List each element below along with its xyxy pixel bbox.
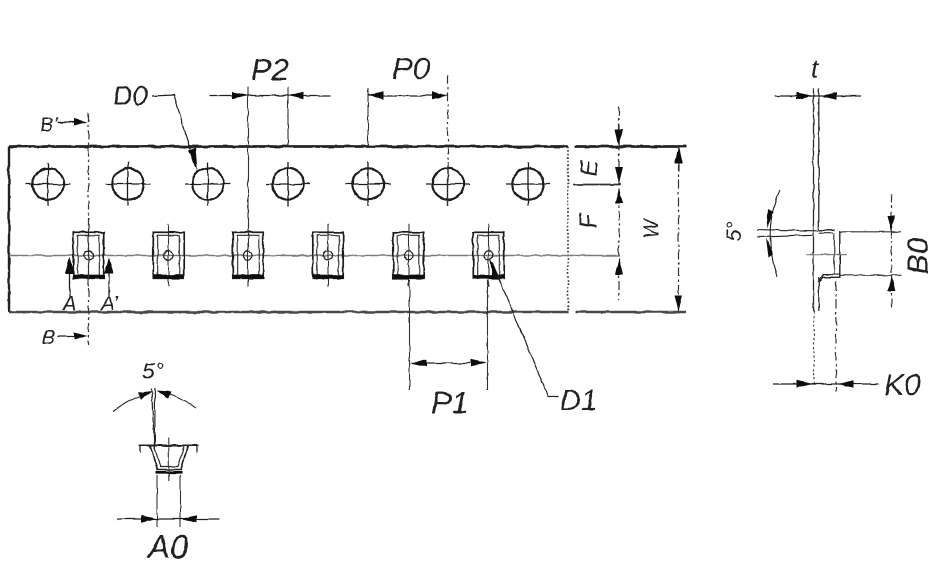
label D0 with leader bbox=[113, 81, 198, 172]
sprocket hole 2 bbox=[106, 162, 151, 206]
detail pocket cup outer wall bbox=[150, 446, 188, 470]
svg-text:A’: A’ bbox=[100, 293, 119, 315]
side view pocket profile bbox=[818, 230, 840, 282]
pocket 1 bbox=[73, 224, 103, 287]
pocket 2 bbox=[153, 224, 183, 287]
tape broken-out piece bottom edge bbox=[575, 311, 686, 313]
tape right break edge (dotted) bbox=[567, 147, 569, 313]
detail view tape surface bbox=[139, 446, 199, 453]
side view 5 degree reference lines bbox=[757, 230, 818, 237]
pocket 6 bbox=[473, 224, 503, 287]
sprocket hole 1 bbox=[26, 162, 71, 206]
label B' with arrow bbox=[40, 114, 88, 136]
pocket row centerline bbox=[9, 255, 620, 257]
svg-text:W: W bbox=[640, 217, 663, 239]
svg-text:D0: D0 bbox=[113, 81, 148, 111]
pocket 3 bbox=[233, 224, 263, 287]
label 5 deg (detail) bbox=[142, 358, 164, 384]
detail cup centerline bbox=[168, 438, 170, 481]
label 5 deg (side view) bbox=[723, 221, 746, 241]
detail 5 degree angle arcs bbox=[113, 391, 196, 412]
tape bottom edge bbox=[9, 311, 568, 313]
pocket 5 bbox=[393, 224, 423, 287]
dimension W bbox=[675, 145, 683, 313]
svg-text:B0: B0 bbox=[902, 237, 935, 274]
sprocket hole 6 bbox=[426, 162, 471, 206]
svg-text:F: F bbox=[575, 212, 602, 228]
svg-text:D1: D1 bbox=[560, 385, 597, 417]
label t bbox=[811, 53, 820, 83]
dimension E/F column bbox=[573, 106, 623, 300]
side view pocket centerline bbox=[806, 254, 847, 256]
svg-text:B: B bbox=[42, 327, 55, 349]
svg-text:5°: 5° bbox=[723, 221, 746, 241]
svg-text:K0: K0 bbox=[884, 369, 921, 402]
tape top edge bbox=[9, 145, 568, 148]
dimension P0 bbox=[368, 51, 448, 206]
dimension K0 bbox=[774, 282, 878, 392]
side view 5 degree angle arc bbox=[766, 190, 780, 277]
label B with arrow bbox=[42, 327, 88, 349]
section arrow A' bbox=[100, 258, 119, 316]
svg-text:P2: P2 bbox=[251, 52, 289, 87]
detail cup bottom bbox=[156, 471, 182, 474]
section arrow A bbox=[62, 258, 76, 316]
dimension P1 bbox=[410, 280, 488, 420]
label E bbox=[576, 159, 603, 176]
svg-text:B’: B’ bbox=[40, 114, 58, 136]
detail 5 degree taper lines bbox=[151, 388, 155, 449]
pocket 4 bbox=[313, 224, 343, 287]
label F bbox=[575, 212, 602, 228]
dimension B0 bbox=[840, 194, 901, 311]
dimension P2 bbox=[209, 52, 331, 231]
label D1 with leader bbox=[490, 257, 598, 417]
svg-text:A0: A0 bbox=[146, 528, 189, 565]
svg-text:5°: 5° bbox=[142, 358, 164, 384]
tape broken-out piece top edge bbox=[575, 145, 686, 148]
label K0 bbox=[884, 369, 921, 402]
label W bbox=[640, 217, 663, 239]
sprocket hole 7 bbox=[506, 162, 551, 206]
label B0 bbox=[902, 237, 935, 274]
svg-text:P1: P1 bbox=[431, 385, 469, 420]
dimension t bbox=[774, 92, 861, 100]
svg-text:E: E bbox=[576, 159, 603, 176]
sprocket hole 3 bbox=[186, 162, 231, 206]
sprocket hole 4 bbox=[266, 162, 311, 206]
section line B-B bbox=[88, 113, 90, 345]
svg-text:P0: P0 bbox=[392, 51, 430, 86]
sprocket hole 5 bbox=[346, 162, 391, 206]
side view tape body bbox=[814, 88, 819, 386]
detail pocket cup inner wall bbox=[154, 446, 185, 467]
tape left edge bbox=[8, 147, 10, 313]
svg-text:t: t bbox=[811, 53, 820, 83]
svg-text:A: A bbox=[62, 293, 76, 315]
dimension A0 bbox=[117, 475, 220, 565]
